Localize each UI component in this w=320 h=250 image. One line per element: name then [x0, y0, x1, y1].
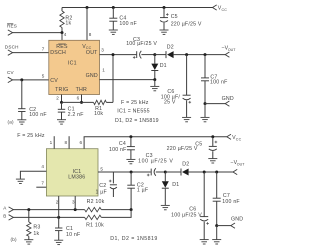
capacitor C4 (a)	[109, 8, 137, 30]
svg-text:1 µF: 1 µF	[137, 187, 148, 193]
svg-text:TRIG: TRIG	[55, 87, 68, 93]
ground C5 (b)	[208, 159, 217, 163]
svg-text:7: 7	[42, 46, 45, 51]
resistor R1 (b)	[85, 210, 132, 229]
svg-text:1k: 1k	[33, 231, 39, 237]
power Vcc terminal (a)	[213, 5, 228, 12]
pin 7 stub (b)	[36, 181, 46, 188]
svg-text:RES: RES	[56, 44, 68, 50]
pin 1 label	[102, 67, 105, 72]
svg-text:OUT: OUT	[86, 50, 98, 56]
ground C5 (a)	[160, 30, 169, 34]
op-amp U1 IC1 LM386 box	[46, 149, 98, 196]
note F (a)	[121, 100, 149, 106]
svg-text:D1, D2 = 1N5819: D1, D2 = 1N5819	[110, 236, 157, 242]
node feedback junction	[130, 208, 133, 211]
ground C1 (b)	[54, 240, 63, 244]
wire OUT row	[100, 53, 137, 56]
pin 2 label	[56, 96, 59, 101]
svg-text:DSCH: DSCH	[5, 44, 19, 49]
ground C7 (a)	[201, 117, 210, 121]
ground C7 (b)	[212, 240, 221, 244]
svg-text:D1: D1	[160, 63, 167, 69]
svg-text:3: 3	[101, 48, 104, 53]
svg-text:IC1: IC1	[68, 60, 77, 66]
wire Vcc rail (a)	[62, 6, 213, 9]
wire TRIG-THR link	[62, 101, 94, 103]
pin 8 label	[89, 32, 92, 37]
svg-text:8: 8	[65, 140, 68, 145]
terminal -Vout (b)	[230, 160, 245, 175]
svg-text:100 nF: 100 nF	[109, 147, 127, 153]
svg-text:2: 2	[56, 96, 59, 101]
svg-text:6: 6	[77, 96, 80, 101]
svg-text:OUT: OUT	[237, 163, 245, 167]
node A input	[3, 206, 84, 213]
op-amp U1 IC1 NE555 box	[49, 40, 100, 94]
svg-text:D2: D2	[182, 162, 189, 168]
svg-text:5: 5	[100, 166, 103, 171]
wire pin6 rail (b)	[80, 135, 227, 148]
svg-text:B: B	[3, 214, 6, 219]
ground C2 (a)	[17, 120, 26, 124]
svg-text:C1: C1	[66, 226, 73, 232]
note diodes (a)	[115, 118, 159, 124]
capacitor C1 (a)	[58, 102, 84, 119]
svg-text:100 nF: 100 nF	[119, 21, 137, 27]
svg-text:DSCH: DSCH	[50, 50, 66, 56]
svg-text:(a): (a)	[8, 119, 14, 124]
note F (b)	[17, 133, 45, 139]
svg-text:CV: CV	[50, 78, 58, 84]
capacitor C3 (a)	[126, 37, 157, 59]
svg-text:100 µF/25 V: 100 µF/25 V	[138, 158, 173, 164]
svg-text:IC1 = NE555: IC1 = NE555	[117, 109, 149, 115]
svg-text:220 µF/25 V: 220 µF/25 V	[167, 146, 198, 152]
pin 8 stub (b)	[65, 136, 70, 149]
pin 1 stub (b)	[50, 136, 55, 149]
node RES input	[7, 24, 64, 36]
wire pin4 to ground (b)	[20, 164, 46, 179]
capacitor C1 (b)	[55, 217, 80, 240]
svg-text:1 µF: 1 µF	[95, 189, 106, 195]
svg-text:1: 1	[50, 140, 53, 145]
terminal GND (b)	[231, 216, 243, 228]
ground D1 (a)	[150, 86, 159, 90]
svg-text:8: 8	[89, 32, 92, 37]
svg-text:GND: GND	[86, 73, 98, 79]
pin 2 stub (b)	[56, 196, 59, 217]
terminal GND (a)	[222, 96, 234, 106]
svg-text:CV: CV	[7, 70, 15, 75]
svg-text:2: 2	[56, 199, 59, 204]
diode D2 (b)	[165, 162, 189, 176]
svg-text:R3: R3	[33, 225, 40, 231]
svg-text:LM386: LM386	[68, 174, 85, 180]
node DSCH input	[5, 44, 49, 55]
capacitor C6 (b)	[171, 172, 209, 239]
node X (b)	[164, 171, 167, 174]
svg-text:10k: 10k	[94, 111, 103, 117]
svg-text:OUT: OUT	[228, 48, 236, 52]
svg-text:5: 5	[42, 74, 45, 79]
svg-text:1: 1	[102, 67, 105, 72]
capacitor C5 (b)	[167, 137, 218, 159]
resistor R2 (b)	[85, 199, 132, 212]
wire D2 to -Vout (b)	[189, 171, 233, 174]
pin 3 stub (b)	[72, 196, 75, 210]
resistor R3 (b)	[27, 210, 41, 240]
wire R1 riser	[112, 55, 114, 103]
svg-text:THR: THR	[76, 87, 87, 93]
svg-text:3: 3	[72, 199, 75, 204]
pin 5 label	[42, 74, 45, 79]
capacitor C6 (a)	[161, 55, 191, 118]
capacitor C3 (b)	[138, 153, 173, 176]
resistor R2	[60, 8, 73, 33]
wire THR stub	[80, 95, 83, 104]
svg-text:D1, D2 = 1N5819: D1, D2 = 1N5819	[115, 118, 159, 124]
svg-text:GND: GND	[231, 216, 243, 222]
pin 3 label	[101, 48, 104, 53]
svg-text:(b): (b)	[11, 237, 17, 242]
terminal -Vout (a)	[221, 46, 236, 58]
svg-text:7: 7	[41, 181, 44, 186]
svg-text:25 V: 25 V	[164, 99, 176, 105]
label (b)	[11, 237, 17, 242]
svg-text:1k: 1k	[65, 21, 71, 27]
svg-text:GND: GND	[222, 96, 234, 102]
power Vcc terminal (b)	[227, 134, 242, 141]
diode D2 (a)	[155, 44, 174, 58]
wire pin1 to D1 ground	[100, 78, 157, 86]
wire TRIG stub	[60, 95, 63, 104]
svg-text:6: 6	[80, 140, 83, 145]
svg-text:4: 4	[64, 32, 67, 37]
svg-text:D2: D2	[167, 44, 174, 50]
pin 4 label	[64, 32, 67, 37]
capacitor C2 feedback (b)	[127, 172, 148, 210]
svg-text:2.2 nF: 2.2 nF	[68, 112, 84, 118]
ground C1 (a)	[57, 120, 66, 124]
resistor R1 (a)	[94, 100, 114, 117]
diode D1 (a)	[151, 55, 167, 80]
wire D2 to -Vout (a)	[174, 53, 226, 56]
svg-text:100 µF/25 V: 100 µF/25 V	[126, 41, 157, 47]
svg-text:C4: C4	[119, 141, 126, 147]
node X (a)	[153, 53, 156, 56]
svg-text:D1: D1	[172, 182, 179, 188]
pin 6 label	[77, 96, 80, 101]
wire pin5 row (b)	[98, 166, 151, 173]
ground C6 (a)	[182, 117, 191, 121]
capacitor C7 (a)	[201, 55, 228, 104]
svg-text:100 nF: 100 nF	[29, 112, 47, 118]
capacitor C7 (b)	[213, 172, 240, 226]
svg-text:F = 25 kHz: F = 25 kHz	[17, 133, 45, 139]
ground C4 (b)	[126, 159, 135, 163]
capacitor C2 (a)	[18, 80, 47, 120]
ground C4 (a)	[109, 30, 118, 34]
node CV input	[7, 70, 49, 83]
ground D1 (b)	[161, 205, 170, 209]
svg-text:F = 25 kHz: F = 25 kHz	[121, 100, 149, 106]
ground R3 (b)	[24, 240, 33, 244]
ground pin4 (b)	[16, 179, 25, 183]
svg-text:C5: C5	[171, 14, 178, 20]
node GND tap (b)	[215, 224, 231, 239]
capacitor C5 (a)	[160, 8, 202, 30]
svg-text:R2 10k: R2 10k	[87, 199, 105, 205]
svg-text:10 nF: 10 nF	[66, 232, 80, 238]
capacitor C2 bypass (b)	[95, 172, 116, 197]
ground C6 (b)	[200, 240, 209, 244]
svg-text:RES: RES	[7, 24, 17, 29]
node B input	[3, 214, 84, 220]
node GND tap (a)	[204, 102, 226, 117]
svg-text:100 nF: 100 nF	[222, 199, 240, 205]
label (a)	[8, 119, 14, 124]
note IC1 (a)	[117, 109, 149, 115]
svg-text:220 µF/25 V: 220 µF/25 V	[171, 21, 202, 27]
capacitor C4 (b)	[109, 137, 135, 159]
pin 7 label	[42, 46, 45, 51]
wire pin8 riser	[86, 8, 88, 41]
svg-text:4: 4	[41, 164, 44, 169]
diode D1 (b)	[162, 172, 180, 205]
svg-text:C2: C2	[99, 183, 106, 189]
svg-text:100 nF: 100 nF	[210, 79, 228, 85]
svg-text:100 µF/25 V: 100 µF/25 V	[171, 212, 202, 218]
svg-text:R1 10k: R1 10k	[86, 223, 104, 229]
wire pin4 stub	[61, 33, 63, 41]
note diodes (b)	[110, 236, 157, 242]
